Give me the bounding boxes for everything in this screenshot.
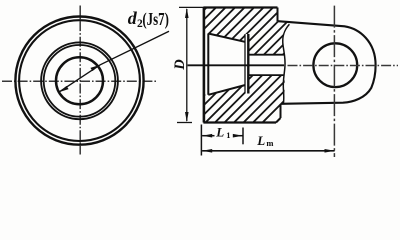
svg-text:L: L	[256, 133, 265, 148]
svg-text:(Js7): (Js7)	[142, 9, 169, 30]
svg-text:D: D	[172, 59, 188, 71]
svg-text:m: m	[266, 138, 273, 148]
svg-text:L: L	[215, 125, 224, 140]
svg-text:1: 1	[226, 130, 230, 140]
